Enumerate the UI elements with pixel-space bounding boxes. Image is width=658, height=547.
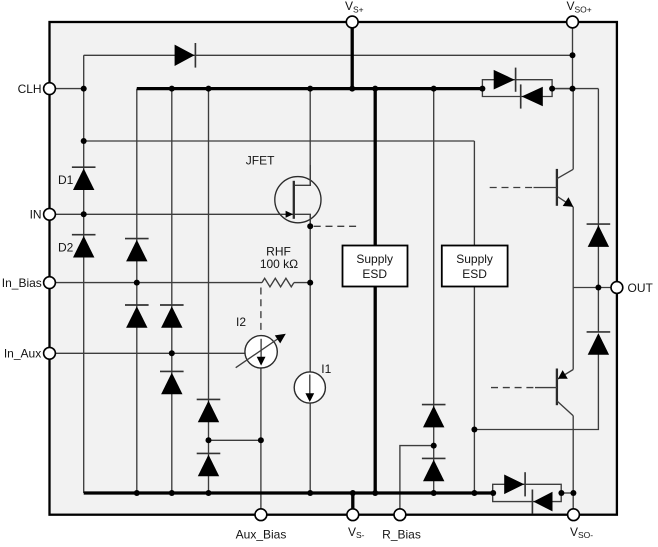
svg-text:R_Bias: R_Bias [382,528,421,542]
IC body outline [50,22,617,515]
wire column C vertical [171,89,173,493]
node In_Aux column C [169,350,175,356]
node bottom bus column D [206,490,212,496]
wire NPN collector rail [572,89,574,170]
dashed I2 control line [260,288,262,335]
svg-text:D1: D1 [58,173,74,187]
wire I1 to bottom bus [309,403,311,493]
dashed NPN base line [490,187,534,189]
wire R_Bias pin stem [400,446,434,515]
wire Aux_Bias tap horizontal [209,439,261,441]
svg-text:VSO+: VSO+ [567,0,592,14]
dashed PNP base line [491,387,535,389]
wire output rail [572,207,574,370]
node V_SO- junction [570,490,576,496]
svg-text:JFET: JFET [246,154,275,168]
diode R_Bias upper [422,405,446,428]
wire IN pin to JFET gate [50,213,293,215]
node bus column C [169,86,175,92]
wire PNP collector to V_SO- [572,416,574,515]
diode column D upper [197,399,221,422]
current source I1 [294,372,325,403]
diode OUT upper [587,224,611,247]
wire column B vertical [136,89,138,493]
resistor RHF 100k [262,278,294,287]
wire pair node to OUT column [552,88,598,90]
node bottom bus I1 [307,490,313,496]
node lower rail tap [471,427,477,433]
diode R_Bias lower [422,458,446,481]
node bus column D [206,86,212,92]
wire top pair to V_SO+ node [552,88,572,90]
node bus center [372,86,378,92]
svg-text:Supply: Supply [356,252,393,266]
node In_Bias column B [134,280,140,286]
transistor NPN output upper [534,169,574,207]
pin In_Bias [44,277,56,289]
node V_SO+ clamp [570,52,576,58]
wire OUT diode column lower [474,352,598,430]
top pair diode forward [494,68,516,92]
svg-text:VS-: VS- [348,525,365,540]
bottom pair diode reverse [532,490,552,514]
diode column C upper [160,305,184,328]
svg-text:CLH: CLH [18,82,42,96]
wire column J vertical [473,141,475,493]
node bottom bus column B [134,490,140,496]
node IN junction [81,211,87,217]
node bottom bus column J [471,490,477,496]
pin V_SO- [568,509,580,521]
diode column C lower [160,371,184,394]
node bottom bus column I [431,490,437,496]
node bottom bus V_S- [350,490,356,496]
svg-text:Supply: Supply [456,252,493,266]
node CLH second junction [81,138,87,144]
svg-text:I2: I2 [236,315,246,329]
thick V_S- stub [351,493,354,515]
wire I2 to Aux_Bias corner [260,368,262,440]
node R_Bias tap [431,443,437,449]
thick top supply bus [137,87,483,90]
node top pair right [549,86,555,92]
JFET Q1 input transistor [275,165,321,228]
top pair diode reverse [521,84,543,108]
svg-text:Aux_Bias: Aux_Bias [236,528,287,542]
transistor PNP output lower [535,369,573,416]
wire OUT horizontal [573,287,617,289]
thick center supply line [374,89,377,493]
node Aux_Bias tap [206,437,212,443]
node V_SO+ junction [570,86,576,92]
wire CLH column vertical [83,55,85,493]
wire column D vertical [208,89,210,493]
diode column D lower [197,453,221,476]
svg-text:VSO-: VSO- [570,525,593,540]
node bus V_S+ [349,86,355,92]
top ESD pair loop [482,80,552,97]
wire JFET source column [309,214,311,372]
wire CLH pin to node [50,88,84,90]
node OUT cross [595,285,601,291]
pin Aux_Bias [255,509,267,521]
svg-text:D2: D2 [58,241,74,255]
thick V_S+ rail [351,22,354,89]
node bus column I [431,86,437,92]
node CLH junction [81,86,87,92]
wire In_Aux pin to I2 [50,352,246,354]
node resistor source [307,280,313,286]
diode D2 [72,235,96,258]
pin V_SO+ [567,16,579,28]
wire CLH clamp top run [84,54,573,56]
diode CLH clamp to V_S+ [175,43,196,68]
node bottom bus center [372,490,378,496]
svg-text:100 kΩ: 100 kΩ [260,257,298,271]
dashed JFET bulk line [314,225,361,227]
svg-text:ESD: ESD [362,267,387,281]
wire Aux_Bias pin stem [260,440,262,514]
wire OUT diode column upper [597,89,599,332]
current source I2 adjustable [236,334,286,368]
node bus JFET drain [307,86,313,92]
bottom ESD pair loop [493,484,562,501]
diode OUT lower [587,332,611,355]
pin In_Aux [44,347,56,359]
wire column I vertical [433,89,435,493]
bottom pair diode forward [504,472,525,496]
Supply ESD block right [442,246,508,287]
node bottom bus column C [169,490,175,496]
node bottom pair right [558,490,564,496]
svg-text:OUT: OUT [628,281,654,295]
Supply ESD block left [343,246,408,287]
node top pair left [479,86,485,92]
svg-text:In_Aux: In_Aux [4,347,41,361]
node Aux_Bias corner [258,437,264,443]
wire CLH second run [84,140,475,142]
wire resistor to node [294,282,310,284]
diode column B lower [125,305,149,328]
thick bottom supply bus [84,491,494,494]
pin V_S- [347,509,359,521]
diode column B upper [125,239,149,262]
wire bottom pair to V_SO- node [561,492,573,494]
svg-text:In_Bias: In_Bias [2,276,42,290]
svg-text:I1: I1 [321,362,331,376]
pin CLH [44,83,56,95]
node bottom pair left [490,490,496,496]
svg-text:IN: IN [30,208,42,222]
svg-text:ESD: ESD [462,267,487,281]
diode D1 [72,167,96,190]
wire JFET drain column [309,89,311,186]
pin V_S+ [346,16,358,28]
wire V_SO+ to pair node [572,22,574,89]
wire In_Bias pin to resistor [50,282,263,284]
pin IN [44,208,56,220]
pin R_Bias [394,509,406,521]
node JFET bulk [307,223,313,229]
pin OUT [611,282,623,294]
svg-text:VS+: VS+ [345,0,364,14]
